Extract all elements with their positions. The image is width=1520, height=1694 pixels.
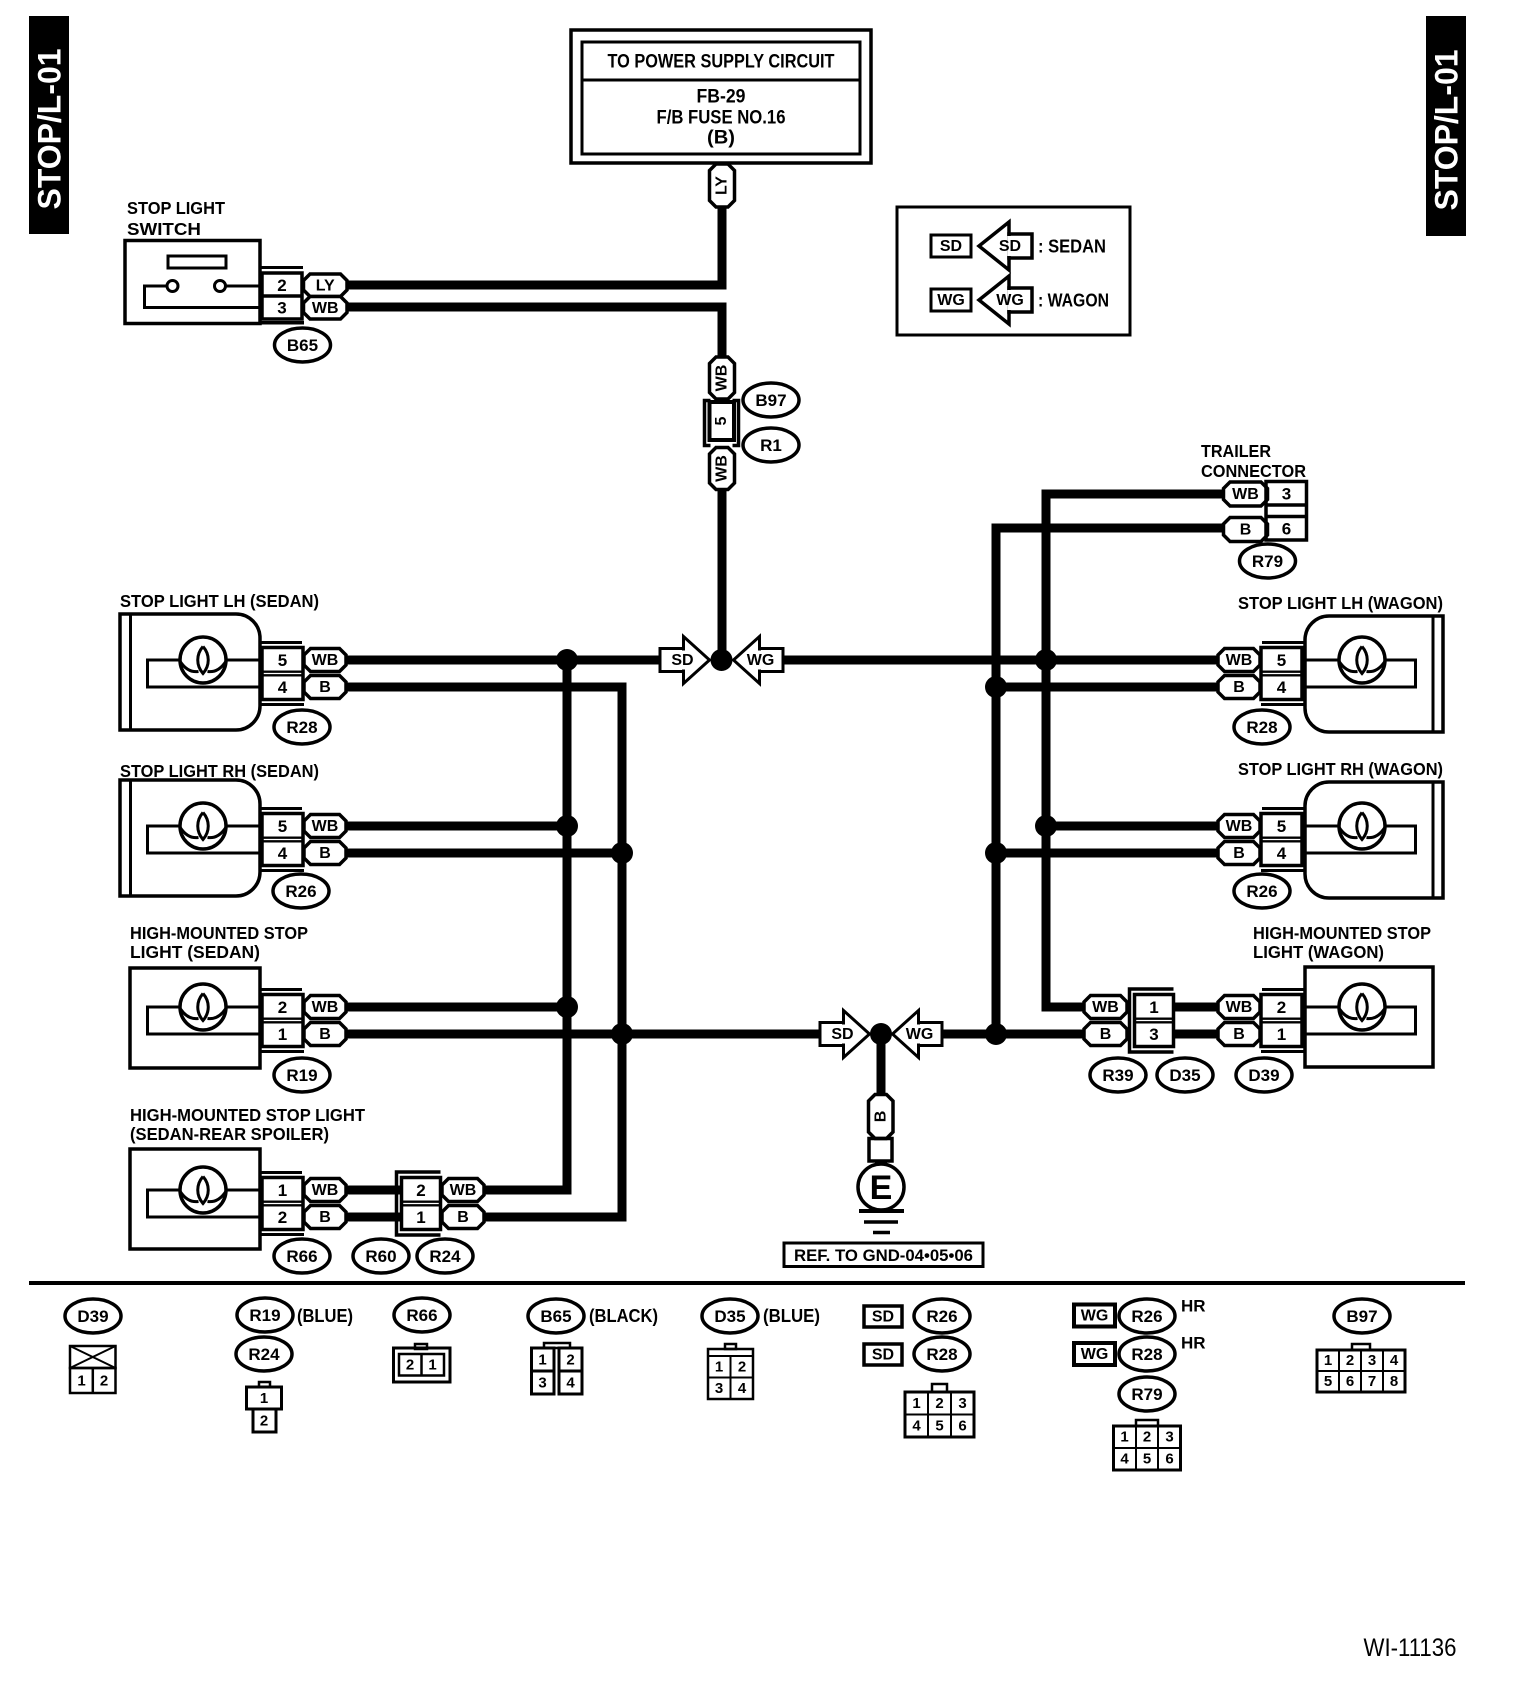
svg-text:LY: LY [316, 277, 335, 294]
svg-text:5: 5 [278, 651, 287, 670]
connector oval D39 [1236, 1058, 1292, 1092]
connector oval R28 wagon [1234, 710, 1290, 744]
stop light LH sedan connector pins 5,4 [260, 641, 302, 644]
svg-text:R26: R26 [1246, 882, 1277, 901]
spoiler connector pins 1,2 [260, 1171, 302, 1174]
legend SD R26 [864, 1306, 902, 1327]
high-mounted stop light sedan lamp [130, 968, 260, 1068]
wire B net wagon RH row [996, 849, 1218, 858]
svg-text:2: 2 [1277, 998, 1286, 1017]
svg-text:8: 8 [1390, 1373, 1398, 1390]
arrow WG into center junction [734, 637, 760, 684]
svg-text:B: B [319, 845, 331, 862]
svg-text:(BLUE): (BLUE) [763, 1306, 820, 1326]
svg-text:WB: WB [714, 365, 731, 392]
connector oval R28 sedan [274, 710, 330, 744]
svg-text:2: 2 [566, 1352, 574, 1369]
svg-text:R24: R24 [248, 1345, 280, 1364]
svg-text:2: 2 [406, 1357, 414, 1374]
svg-text:1: 1 [77, 1373, 85, 1390]
legend WG R26 HR [1074, 1305, 1115, 1327]
svg-text:D39: D39 [1248, 1066, 1279, 1085]
legend oval R19 [237, 1298, 293, 1332]
svg-text:R79: R79 [1252, 552, 1283, 571]
svg-text:WI-11136: WI-11136 [1364, 1634, 1457, 1662]
svg-text:R28: R28 [286, 718, 317, 737]
inline connector R39/D35 pins 1,3 [1130, 989, 1174, 1052]
high-mounted wagon connector pins 2,1 [1262, 988, 1306, 991]
svg-text:R26: R26 [1131, 1307, 1162, 1326]
svg-text:WG: WG [937, 292, 965, 309]
svg-text:6: 6 [1282, 520, 1291, 539]
svg-text:HIGH-MOUNTED STOP LIGHT: HIGH-MOUNTED STOP LIGHT [130, 1105, 365, 1125]
svg-text:1: 1 [715, 1359, 723, 1376]
svg-text:CONNECTOR: CONNECTOR [1201, 461, 1306, 481]
svg-text:SD: SD [940, 238, 962, 255]
svg-text:STOP/L-01: STOP/L-01 [32, 49, 68, 210]
arrow SD into center junction [684, 637, 710, 684]
svg-text:(BLACK): (BLACK) [589, 1306, 658, 1326]
svg-text:1: 1 [1324, 1352, 1332, 1369]
svg-text:2: 2 [100, 1373, 108, 1390]
connector oval R26 sedan [273, 874, 329, 908]
connector oval B65 [275, 328, 331, 362]
wire B ground bus row from high-mounted sedan to SD arrow [346, 1030, 821, 1039]
capsule WB below inline connector [710, 448, 735, 490]
svg-text:WB: WB [1226, 999, 1253, 1016]
svg-text:6: 6 [1346, 1373, 1354, 1390]
stop light RH wagon lamp [1305, 782, 1443, 898]
wire WB left bus vertical down to spoiler WB [484, 660, 567, 1190]
svg-text:STOP LIGHT LH (WAGON): STOP LIGHT LH (WAGON) [1238, 593, 1443, 613]
stop light LH wagon connector pins 5,4 [1262, 641, 1306, 644]
svg-text:R1: R1 [760, 436, 782, 455]
svg-text:B: B [1240, 522, 1252, 539]
svg-text:3: 3 [1165, 1429, 1173, 1446]
svg-text:WB: WB [1226, 652, 1253, 669]
svg-text:1: 1 [912, 1395, 920, 1412]
svg-text:2: 2 [1346, 1352, 1354, 1369]
page tag STOP/L-01 right [1426, 16, 1466, 236]
connector oval R19 [274, 1058, 330, 1092]
stop light RH wagon connector pins 5,4 [1262, 807, 1306, 810]
svg-text:(SEDAN-REAR SPOILER): (SEDAN-REAR SPOILER) [130, 1124, 329, 1144]
svg-text:TRAILER: TRAILER [1201, 441, 1271, 461]
svg-text:R19: R19 [286, 1066, 317, 1085]
svg-text:LIGHT (SEDAN): LIGHT (SEDAN) [130, 942, 260, 962]
svg-text:2: 2 [1143, 1429, 1151, 1446]
svg-text:6: 6 [1165, 1451, 1173, 1468]
svg-text:4: 4 [1390, 1352, 1399, 1369]
junction dot ground junction [870, 1023, 892, 1045]
svg-text:WB: WB [1226, 818, 1253, 835]
svg-text:WB: WB [312, 818, 339, 835]
svg-text:2: 2 [416, 1181, 425, 1200]
stop light LH wagon lamp [1305, 616, 1443, 732]
svg-text:D35: D35 [714, 1307, 745, 1326]
svg-text:R39: R39 [1102, 1066, 1133, 1085]
svg-text:R26: R26 [926, 1307, 957, 1326]
high-mounted stop light wagon lamp [1305, 967, 1433, 1067]
svg-text:1: 1 [416, 1208, 425, 1227]
svg-text:B: B [1233, 1026, 1245, 1043]
legend connector B97 [1352, 1344, 1370, 1350]
wire WB net down to center junction [718, 489, 727, 660]
svg-text:4: 4 [1277, 844, 1287, 863]
svg-text:SD: SD [999, 238, 1021, 255]
svg-text:4: 4 [912, 1418, 921, 1435]
high-mounted spoiler lamp [130, 1149, 260, 1249]
svg-text:(BLUE): (BLUE) [297, 1306, 353, 1326]
power supply box FB-29 F/B FUSE NO.16 [571, 30, 871, 163]
connector oval R79 [1240, 544, 1296, 578]
capsule B spoiler inline [442, 1206, 484, 1229]
capsule B at ground [869, 1095, 894, 1139]
ground connector box [869, 1139, 892, 1162]
wire B net LH sedan to left B bus then down to spoiler B [346, 687, 622, 1217]
svg-text:R26: R26 [285, 882, 316, 901]
legend oval D39 [65, 1299, 121, 1333]
svg-text:B97: B97 [1346, 1307, 1377, 1326]
svg-text:2: 2 [738, 1359, 746, 1376]
legend connector R24 [259, 1382, 270, 1387]
svg-text:4: 4 [566, 1375, 575, 1392]
capsule WB at switch pin 3 [304, 297, 348, 320]
svg-text:B: B [457, 1209, 469, 1226]
svg-text:LIGHT (WAGON): LIGHT (WAGON) [1253, 942, 1384, 962]
svg-text:TO POWER SUPPLY CIRCUIT: TO POWER SUPPLY CIRCUIT [608, 52, 835, 73]
wire WB bus row from stop light LH sedan to SD arrow [346, 656, 662, 665]
svg-text:4: 4 [1120, 1451, 1129, 1468]
svg-text:2: 2 [277, 276, 286, 295]
svg-text:5: 5 [935, 1418, 943, 1435]
svg-text:WG: WG [996, 292, 1024, 309]
svg-text:R28: R28 [1246, 718, 1277, 737]
svg-text:HIGH-MOUNTED STOP: HIGH-MOUNTED STOP [1253, 923, 1431, 943]
capsule B at R39 [1084, 1023, 1127, 1046]
legend connector D39 [70, 1346, 116, 1368]
svg-text:5: 5 [1277, 651, 1286, 670]
high-mounted sedan connector pins 2,1 [260, 988, 302, 991]
svg-text:4: 4 [278, 678, 288, 697]
svg-text:1: 1 [1120, 1429, 1128, 1446]
wire B spoiler to inline connector [346, 1213, 402, 1222]
wire WB from D35 to D39 [1174, 1003, 1218, 1012]
svg-text:1: 1 [1277, 1025, 1286, 1044]
capsule LY at fuse output [710, 164, 735, 207]
svg-text:SD: SD [872, 1347, 894, 1364]
legend oval B65 [528, 1299, 584, 1333]
svg-text:4: 4 [738, 1380, 747, 1397]
inline connector R60/R24 pins 2,1 [397, 1172, 441, 1235]
junction dot B right bus at ground row [985, 1023, 1007, 1045]
wire WB spoiler to inline connector [346, 1186, 402, 1195]
svg-text:F/B FUSE NO.16: F/B FUSE NO.16 [657, 108, 786, 129]
svg-text:: SEDAN: : SEDAN [1038, 237, 1106, 257]
connector oval R1 [743, 428, 799, 462]
svg-text:HR: HR [1181, 1297, 1206, 1316]
legend oval R79 [1119, 1377, 1175, 1411]
svg-text:3: 3 [277, 299, 286, 318]
connector oval R24 [417, 1239, 473, 1273]
wire B net wagon LH row [996, 683, 1218, 692]
svg-text:D35: D35 [1169, 1066, 1200, 1085]
svg-text:D39: D39 [77, 1307, 108, 1326]
svg-text:3: 3 [958, 1395, 966, 1412]
junction dot B left bus at ground row [611, 1023, 633, 1045]
connector oval R26 wagon [1234, 874, 1290, 908]
legend oval R24 [236, 1337, 292, 1371]
svg-text:REF. TO GND-04•05•06: REF. TO GND-04•05•06 [794, 1246, 973, 1265]
inline connector B97/R1 pin 5 [705, 401, 711, 446]
connector oval R39 [1090, 1058, 1146, 1092]
svg-text:3: 3 [1149, 1025, 1158, 1044]
wire WB net high-mounted sedan row [346, 1003, 567, 1012]
svg-text:4: 4 [278, 844, 288, 863]
svg-text:(B): (B) [707, 128, 735, 149]
svg-text:2: 2 [935, 1395, 943, 1412]
svg-text:B: B [1100, 1026, 1112, 1043]
svg-text:SD: SD [872, 1309, 894, 1326]
svg-text:WB: WB [312, 1182, 339, 1199]
svg-text:3: 3 [715, 1380, 723, 1397]
svg-text:HIGH-MOUNTED STOP: HIGH-MOUNTED STOP [130, 923, 308, 943]
junction dot WB left bus [556, 649, 578, 671]
svg-text:WG: WG [1081, 1346, 1109, 1363]
svg-text:WG: WG [906, 1026, 934, 1043]
capsule LY at switch pin 2 [304, 274, 348, 297]
separator line [29, 1281, 1465, 1285]
svg-text:WB: WB [450, 1182, 477, 1199]
svg-text:4: 4 [1277, 678, 1287, 697]
svg-text:: WAGON: : WAGON [1038, 291, 1109, 311]
arrow WG into ground junction [893, 1011, 919, 1058]
svg-text:R19: R19 [249, 1306, 280, 1325]
svg-text:7: 7 [1368, 1373, 1376, 1390]
wire WB net from switch pin 3 down to junction [347, 307, 722, 357]
svg-text:1: 1 [278, 1025, 287, 1044]
arrow SD into ground junction [844, 1011, 870, 1058]
svg-text:R66: R66 [406, 1306, 437, 1325]
svg-text:LY: LY [714, 176, 731, 195]
svg-text:STOP LIGHT RH (WAGON): STOP LIGHT RH (WAGON) [1238, 759, 1443, 779]
ground E circle [858, 1164, 904, 1210]
svg-text:2: 2 [278, 1208, 287, 1227]
svg-text:3: 3 [1282, 485, 1291, 504]
legend connector D35 [725, 1344, 736, 1349]
svg-text:1: 1 [428, 1357, 436, 1374]
svg-text:B97: B97 [755, 391, 786, 410]
wire B net trailer connector down right B bus [996, 528, 1223, 1034]
svg-text:1: 1 [538, 1352, 546, 1369]
ground symbol [859, 1209, 904, 1213]
svg-text:R79: R79 [1131, 1385, 1162, 1404]
capsule WB above inline connector [710, 357, 735, 399]
wire WB net wagon RH row [1046, 822, 1218, 831]
svg-text:6: 6 [958, 1418, 966, 1435]
ref to GND box [784, 1243, 983, 1267]
junction dot WB right bus [1035, 649, 1057, 671]
connector oval B97 [743, 383, 799, 417]
svg-text:SD: SD [671, 652, 693, 669]
svg-text:WB: WB [714, 455, 731, 482]
legend connector B65 [544, 1343, 570, 1348]
svg-text:5: 5 [1277, 817, 1286, 836]
svg-text:SWITCH: SWITCH [127, 219, 201, 239]
connector oval R60 [353, 1239, 409, 1273]
svg-text:R28: R28 [926, 1345, 957, 1364]
svg-text:B65: B65 [540, 1307, 571, 1326]
connector oval D35 [1157, 1058, 1213, 1092]
stop light LH sedan lamp [120, 614, 260, 730]
svg-text:5: 5 [1324, 1373, 1332, 1390]
svg-text:R66: R66 [286, 1247, 317, 1266]
trailer pin box pins 3,6 [1266, 482, 1307, 541]
svg-text:HR: HR [1181, 1334, 1206, 1353]
junction dot center WB [711, 649, 733, 671]
wire LY net from fuse to stop light switch pin 2 [347, 207, 722, 285]
legend oval B97 [1334, 1299, 1390, 1333]
wire ground drop from junction to ground connector [877, 1034, 886, 1093]
wire B ground bus from WG arrow to wagon high-mounted [942, 1030, 1085, 1039]
svg-text:2: 2 [260, 1413, 268, 1430]
svg-text:WB: WB [312, 652, 339, 669]
svg-text:5: 5 [1143, 1451, 1151, 1468]
stop light RH sedan lamp [120, 780, 260, 896]
svg-text:E: E [870, 1169, 893, 1207]
svg-text:STOP LIGHT LH (SEDAN): STOP LIGHT LH (SEDAN) [120, 591, 319, 611]
svg-text:STOP LIGHT: STOP LIGHT [127, 198, 225, 218]
svg-text:1: 1 [260, 1390, 268, 1407]
svg-text:B65: B65 [287, 336, 318, 355]
svg-text:5: 5 [278, 817, 287, 836]
switch connector B65 pin box pins 2,3 [260, 266, 303, 269]
legend oval D35 [702, 1299, 758, 1333]
svg-text:3: 3 [1368, 1352, 1376, 1369]
svg-text:1: 1 [278, 1181, 287, 1200]
svg-text:2: 2 [278, 998, 287, 1017]
wire B net RH sedan row [346, 849, 622, 858]
svg-text:WG: WG [1081, 1308, 1109, 1325]
svg-text:3: 3 [538, 1375, 546, 1392]
svg-text:B: B [1233, 845, 1245, 862]
svg-text:R60: R60 [365, 1247, 396, 1266]
legend WG R28 HR [1074, 1343, 1115, 1365]
svg-text:SD: SD [831, 1026, 853, 1043]
wire WB net RH sedan row [346, 822, 567, 831]
svg-text:STOP/L-01: STOP/L-01 [1429, 50, 1465, 211]
legend connector R26/R28 sedan [932, 1384, 947, 1392]
capsule WB trailer pin 3 [1224, 482, 1268, 506]
legend SD R28 [864, 1344, 902, 1365]
wire WB bus row from WG arrow to wagon side [783, 656, 1218, 665]
svg-text:B: B [319, 1026, 331, 1043]
svg-text:R28: R28 [1131, 1345, 1162, 1364]
svg-text:WB: WB [312, 300, 339, 317]
svg-text:WG: WG [747, 652, 775, 669]
svg-text:B: B [1233, 679, 1245, 696]
capsule B trailer pin 6 [1224, 518, 1268, 542]
legend box SD/WG [897, 207, 1130, 335]
capsule WB spoiler inline [442, 1179, 484, 1202]
capsule WB at R39 [1084, 996, 1127, 1019]
svg-text:STOP LIGHT RH (SEDAN): STOP LIGHT RH (SEDAN) [120, 761, 319, 781]
connector oval R66 [274, 1239, 330, 1273]
svg-text:WB: WB [1092, 999, 1119, 1016]
svg-text:FB-29: FB-29 [697, 87, 746, 108]
svg-text:1: 1 [1149, 998, 1158, 1017]
svg-text:B: B [319, 1209, 331, 1226]
svg-text:B: B [872, 1111, 889, 1123]
legend connector R66 [415, 1344, 427, 1349]
legend connector R79 wagon [1136, 1420, 1158, 1426]
svg-text:WB: WB [1232, 486, 1259, 503]
legend oval R66 [394, 1298, 450, 1332]
page tag STOP/L-01 left [29, 16, 69, 234]
svg-text:5: 5 [713, 416, 730, 425]
stop light RH sedan connector pins 5,4 [260, 807, 302, 810]
svg-text:R24: R24 [429, 1247, 461, 1266]
wire WB net trailer connector down right WB bus to wagon high-mounted [1046, 494, 1223, 1007]
svg-text:WB: WB [312, 999, 339, 1016]
svg-text:B: B [319, 679, 331, 696]
wire B from D35 to D39 [1174, 1030, 1218, 1039]
